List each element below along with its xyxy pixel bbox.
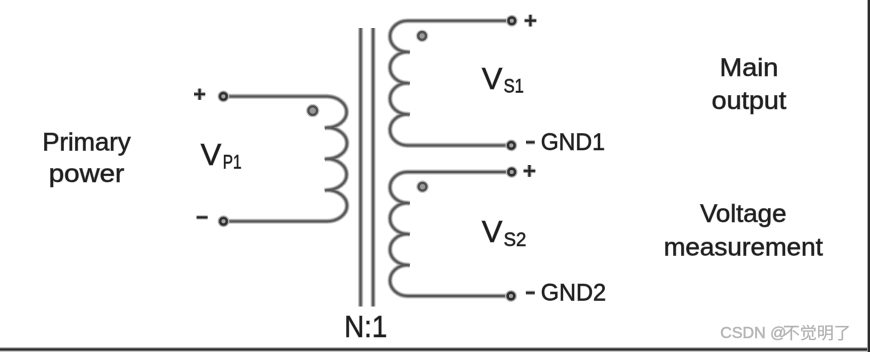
svg-text:P1: P1 (223, 152, 242, 174)
terminal primary minus (218, 215, 230, 227)
svg-text:Primary: Primary (42, 128, 131, 156)
svg-text:measurement: measurement (664, 234, 823, 262)
svg-text:GND1: GND1 (541, 129, 605, 156)
terminal VS1 plus (506, 15, 518, 27)
svg-text:N:1: N:1 (344, 310, 387, 344)
svg-text:V: V (482, 61, 503, 96)
svg-text:Voltage: Voltage (700, 200, 786, 228)
svg-text:CSDN @: CSDN @ (720, 325, 786, 342)
svg-text:S2: S2 (504, 229, 527, 251)
page right border (868, 0, 870, 352)
plus sign VS1 (525, 15, 537, 27)
plus sign VS2 (524, 165, 536, 177)
core line right (371, 28, 376, 307)
minus sign GND1 (526, 140, 535, 144)
core line left (358, 28, 363, 307)
primary winding coil and wires (228, 96, 347, 221)
svg-text:output: output (712, 87, 787, 115)
svg-text:Main: Main (720, 54, 779, 82)
minus sign GND2 (526, 291, 535, 295)
svg-text:V: V (201, 137, 222, 172)
watermark hanzi 不觉明了 (784, 326, 800, 340)
terminal VS2 GND2 (505, 290, 517, 302)
terminal VS2 plus (506, 166, 518, 178)
svg-text:V: V (482, 214, 503, 249)
terminal primary plus (218, 91, 230, 103)
secondary winding VS2 coil and wires (390, 172, 507, 296)
svg-text:power: power (49, 160, 125, 188)
secondary winding VS1 coil and wires (390, 21, 507, 146)
terminal VS1 GND1 (505, 140, 517, 152)
svg-text:S1: S1 (504, 76, 524, 98)
plus sign primary (194, 89, 205, 100)
polarity dot VS2 (416, 180, 429, 193)
polarity dot VS1 (416, 30, 429, 43)
polarity dot primary (306, 104, 319, 117)
page bottom border (0, 348, 870, 351)
minus sign primary (197, 215, 208, 219)
svg-text:GND2: GND2 (541, 279, 606, 306)
